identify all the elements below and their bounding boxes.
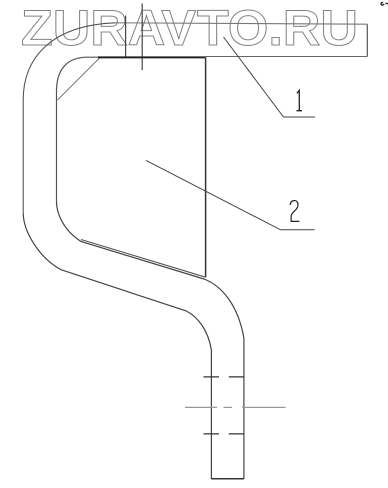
label 1 — [297, 90, 303, 110]
top bar right end — [366, 24, 368, 56]
plate top edge — [98, 56, 206, 58]
leader line 1 — [224, 37, 316, 117]
strap outer edge (left vertical and top bend) — [23, 23, 115, 213]
plate chamfer edge — [58, 58, 100, 100]
svg-text:TO.RU: TO.RU — [197, 0, 358, 56]
tube center line — [185, 406, 286, 408]
top bar bottom edge (right of plate) — [205, 56, 367, 58]
hole axis line B — [141, 4, 143, 71]
strap inner edge (vertical and upper bend arc) — [57, 57, 99, 201]
hole axis line A — [125, 16, 127, 58]
tube upper tick dashes — [204, 376, 245, 378]
tube lower tick dashes — [204, 433, 245, 435]
tube bottom closure — [211, 478, 244, 480]
top bar top edge — [115, 23, 367, 24]
svg-text:ZURAV: ZURAV — [21, 0, 197, 56]
label 2 — [290, 201, 299, 222]
corner mark top-right — [381, 2, 388, 5]
leader line 2 — [146, 160, 314, 229]
strap inner edge (lower bend, diagonal, bend into tube right wall) — [57, 202, 244, 479]
plate bottom edge — [81, 240, 206, 278]
strap outer edge (lower S-bend into tube left wall) — [23, 213, 211, 479]
plate right edge — [205, 57, 207, 277]
